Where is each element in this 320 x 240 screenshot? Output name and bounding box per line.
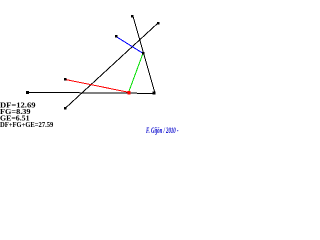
svg-text:DF+FG+GE=27.59: DF+FG+GE=27.59	[0, 120, 54, 129]
svg-text:F. Gijón / 2010 -: F. Gijón / 2010 -	[145, 126, 178, 135]
